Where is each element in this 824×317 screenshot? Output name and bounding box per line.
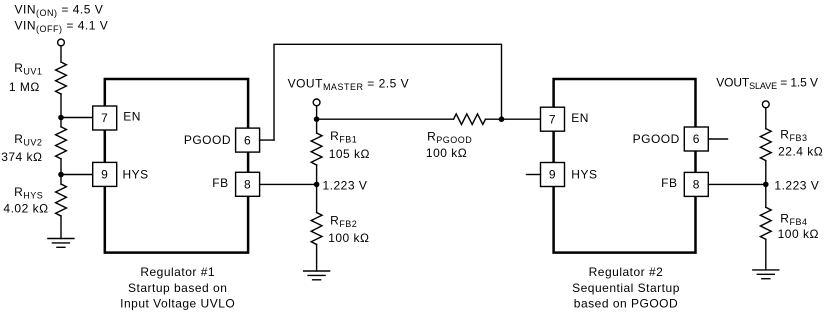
value 100 kΩ (RPGOOD) — [426, 146, 467, 160]
svg-text:RHYS: RHYS — [14, 185, 43, 201]
label FB U2 — [661, 176, 677, 190]
label RUV2 — [14, 132, 42, 148]
label RFB3 — [780, 127, 807, 143]
label VOUTSLAVE = 1.5 V — [716, 75, 818, 91]
node FB U2 junction — [763, 182, 769, 188]
label HYS U2 — [571, 167, 597, 181]
svg-text:RFB1: RFB1 — [330, 129, 357, 145]
wire RUV1 to EN node — [60, 94, 62, 118]
pin 8 (FB) U2 — [684, 172, 708, 196]
input terminal VIN — [58, 39, 65, 46]
svg-text:6: 6 — [244, 133, 251, 147]
svg-text:HYS: HYS — [571, 167, 597, 181]
svg-text:FB: FB — [212, 176, 228, 190]
svg-text:RPGOOD: RPGOOD — [427, 130, 472, 146]
value 22.4 kΩ — [778, 145, 823, 159]
wire RFB2 to ground — [316, 245, 318, 272]
svg-text:4.02 kΩ: 4.02 kΩ — [3, 202, 48, 216]
svg-text:Regulator #2: Regulator #2 — [589, 265, 664, 279]
wire EN node to pin 7 U1 — [61, 117, 93, 119]
svg-text:1.223 V: 1.223 V — [323, 179, 368, 193]
svg-text:RFB4: RFB4 — [780, 211, 807, 227]
resistor RUV1 — [56, 62, 67, 94]
node EN U2 junction — [499, 116, 505, 122]
svg-text:FB: FB — [661, 176, 677, 190]
svg-text:VIN(ON) = 4.5 V: VIN(ON) = 4.5 V — [15, 2, 104, 18]
caption Input Voltage UVLO — [120, 297, 235, 311]
output terminal VOUT_MASTER — [313, 99, 320, 106]
wire VOUT terminal down — [316, 106, 318, 119]
resistor RHYS — [56, 184, 67, 216]
node HYS-divider junction — [58, 172, 64, 178]
caption Regulator #2 — [589, 265, 664, 279]
label PGOOD U2 — [633, 132, 680, 146]
label VIN(OFF) = 4.1 V — [15, 18, 109, 34]
ground (FB divider U2) — [753, 270, 779, 279]
svg-text:100 kΩ: 100 kΩ — [778, 227, 819, 241]
svg-text:1 MΩ: 1 MΩ — [9, 80, 40, 94]
pin 8 (FB) U1 — [236, 172, 260, 196]
svg-text:7: 7 — [549, 112, 556, 126]
regulator U2 box — [554, 79, 696, 253]
svg-text:PGOOD: PGOOD — [633, 132, 680, 146]
value 100 kΩ (RFB4) — [778, 227, 819, 241]
wire PGOOD stub U2 — [708, 138, 727, 140]
pin 6 (PGOOD) U2 — [684, 127, 708, 151]
resistor RFB2 — [311, 213, 322, 245]
svg-text:374 kΩ: 374 kΩ — [1, 150, 42, 164]
wire HYS stub U2 — [527, 174, 541, 176]
svg-text:RUV1: RUV1 — [14, 61, 42, 77]
value 4.02 kΩ — [3, 202, 48, 216]
value 105 kΩ — [329, 147, 370, 161]
label RFB1 — [330, 129, 357, 145]
wire EN node to pin 7 U2 — [502, 118, 541, 120]
caption Sequential Startup — [572, 281, 680, 295]
svg-text:8: 8 — [244, 178, 251, 192]
wire pin 6 U1 to riser — [260, 139, 274, 141]
regulator U1 box — [105, 79, 248, 253]
ground (input divider) — [48, 239, 74, 248]
resistor RFB1 — [311, 133, 322, 165]
label PGOOD U1 — [184, 133, 231, 147]
wire FB node to RFB4 — [765, 184, 767, 207]
wire VOUT node to RPGOOD — [317, 118, 454, 120]
svg-text:8: 8 — [693, 178, 700, 192]
svg-text:100 kΩ: 100 kΩ — [426, 146, 467, 160]
wire pin 8 U2 to FB node — [708, 183, 766, 185]
label RHYS — [14, 185, 43, 201]
node EN-divider junction — [58, 115, 64, 121]
svg-text:EN: EN — [123, 110, 141, 124]
svg-text:VOUTSLAVE = 1.5 V: VOUTSLAVE = 1.5 V — [716, 75, 818, 91]
svg-text:VIN(OFF) = 4.1 V: VIN(OFF) = 4.1 V — [15, 18, 109, 34]
wire riser up and top rail and drop — [274, 44, 502, 140]
svg-text:RUV2: RUV2 — [14, 132, 42, 148]
pin 9 (HYS) U1 — [93, 162, 117, 186]
label HYS U1 — [123, 167, 149, 181]
pin 7 (EN) U1 — [93, 106, 117, 130]
label RPGOOD — [427, 130, 472, 146]
svg-text:Regulator #1: Regulator #1 — [140, 265, 215, 279]
pin 7 (EN) U2 — [541, 107, 565, 131]
wire HYS node to RHYS — [60, 175, 62, 185]
wire VOUT_SLAVE terminal to RFB3 — [765, 108, 767, 129]
svg-text:22.4 kΩ: 22.4 kΩ — [778, 145, 823, 159]
wire HYS node to pin 9 U1 — [61, 174, 93, 176]
svg-text:RFB2: RFB2 — [330, 214, 357, 230]
wire RFB3 to FB node U2 — [765, 161, 767, 185]
svg-text:HYS: HYS — [123, 167, 149, 181]
wire RHYS to ground — [60, 216, 62, 239]
resistor RFB4 — [760, 207, 771, 239]
caption based on PGOOD — [574, 297, 678, 311]
label EN U2 — [571, 111, 589, 125]
svg-text:100 kΩ: 100 kΩ — [328, 231, 369, 245]
svg-text:Sequential Startup: Sequential Startup — [572, 281, 680, 295]
caption Regulator #1 — [140, 265, 215, 279]
svg-text:7: 7 — [101, 111, 108, 125]
resistor RFB3 — [760, 129, 771, 161]
svg-text:based on PGOOD: based on PGOOD — [574, 297, 678, 311]
ground (FB divider U1) — [304, 271, 330, 280]
svg-text:1.223 V: 1.223 V — [774, 178, 819, 192]
node FB U1 junction — [314, 182, 320, 188]
svg-text:6: 6 — [693, 132, 700, 146]
value 100 kΩ (RFB2) — [328, 231, 369, 245]
svg-text:RFB3: RFB3 — [780, 127, 807, 143]
resistor RPGOOD — [454, 114, 486, 125]
svg-text:Input Voltage UVLO: Input Voltage UVLO — [120, 297, 235, 311]
resistor RUV2 — [56, 127, 67, 159]
node VOUT_MASTER junction — [314, 116, 320, 122]
wire FB node to RFB2 — [316, 184, 318, 212]
label 1.223 V (U1) — [323, 179, 368, 193]
svg-text:Startup based on: Startup based on — [128, 281, 227, 295]
svg-text:9: 9 — [549, 168, 556, 182]
svg-text:105 kΩ: 105 kΩ — [329, 147, 370, 161]
wire RUV2 to HYS node — [60, 159, 62, 175]
svg-text:VOUTMASTER = 2.5 V: VOUTMASTER = 2.5 V — [288, 77, 410, 93]
wire RFB4 to ground — [765, 239, 767, 270]
svg-text:PGOOD: PGOOD — [184, 133, 231, 147]
wire VOUT node to RFB1 — [316, 119, 318, 133]
wire RPGOOD to EN node U2 — [486, 118, 502, 120]
label VIN(ON) = 4.5 V — [15, 2, 104, 18]
svg-text:EN: EN — [571, 111, 589, 125]
label 1.223 V (U2) — [774, 178, 819, 192]
label EN U1 — [123, 110, 141, 124]
pin 6 (PGOOD) U1 — [236, 128, 260, 152]
label RUV1 — [14, 61, 42, 77]
label FB U1 — [212, 176, 228, 190]
wire RFB1 to FB node — [316, 165, 318, 184]
value 1 MΩ — [9, 80, 40, 94]
label RFB2 — [330, 214, 357, 230]
wire pin 8 U1 to FB node — [260, 183, 317, 185]
label RFB4 — [780, 211, 807, 227]
output terminal VOUT_SLAVE — [762, 101, 769, 108]
wire VIN terminal to RUV1 — [60, 46, 62, 62]
wire EN node to RUV2 — [60, 118, 62, 127]
pin 9 (HYS) U2 — [541, 163, 565, 187]
label VOUTMASTER = 2.5 V — [288, 77, 410, 93]
caption Startup based on — [128, 281, 227, 295]
svg-text:9: 9 — [101, 168, 108, 182]
value 374 kΩ — [1, 150, 42, 164]
